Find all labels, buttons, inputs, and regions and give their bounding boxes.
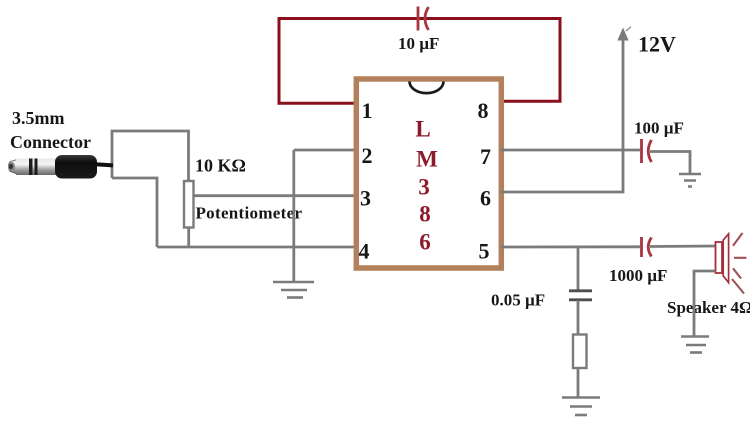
3.5mm connector J1	[8, 155, 97, 179]
svg-text:12V: 12V	[638, 32, 676, 57]
potentiometer R1	[184, 181, 194, 228]
svg-text:7: 7	[480, 144, 491, 169]
IC label LM386 vertical	[415, 117, 438, 255]
wire: pin 6 to 12V rail	[501, 38, 623, 192]
svg-text:100 µF: 100 µF	[634, 119, 684, 138]
svg-text:10 KΩ: 10 KΩ	[195, 156, 246, 176]
svg-text:L: L	[415, 117, 430, 142]
wire: bottom rail to pin 4	[157, 246, 356, 249]
ground G2	[679, 174, 701, 187]
svg-text:Speaker 4Ω: Speaker 4Ω	[667, 298, 750, 317]
wire: red feedback loop (pin1 - C1 - pin8)	[279, 19, 560, 104]
svg-text:10 µF: 10 µF	[398, 34, 439, 53]
svg-text:3.5mm: 3.5mm	[12, 108, 65, 128]
wire: input down-path to bottom rail	[112, 178, 157, 247]
svg-text:2: 2	[362, 143, 373, 168]
wire: jack cable	[95, 164, 113, 165]
svg-text:6: 6	[480, 186, 491, 211]
12V arrowhead tick	[626, 27, 631, 31]
speaker LS1	[716, 233, 747, 294]
ground G1	[273, 282, 314, 298]
svg-text:4: 4	[359, 239, 370, 264]
resistor R2	[573, 335, 587, 369]
capacitor C3 0.05uF	[569, 291, 592, 300]
wire: pot bottom lead	[187, 228, 190, 248]
wire: input loop from jack to pot top	[112, 131, 189, 181]
IC notch	[410, 82, 444, 94]
svg-text:M: M	[416, 147, 438, 172]
ground G4	[562, 398, 600, 416]
capacitor C5 1000uF	[642, 237, 652, 257]
svg-text:3: 3	[360, 186, 371, 211]
svg-text:8: 8	[478, 98, 489, 123]
svg-text:0.05 µF: 0.05 µF	[491, 291, 545, 310]
svg-text:Connector: Connector	[10, 132, 91, 152]
wire: speaker return to ground G3	[694, 271, 716, 336]
svg-text:5: 5	[479, 239, 490, 264]
ground G3	[681, 337, 709, 353]
svg-text:1000 µF: 1000 µF	[609, 266, 667, 285]
wire: pin 5 to C5 and speaker	[501, 245, 640, 248]
svg-text:1: 1	[362, 98, 373, 123]
wire: C3 to R2	[577, 300, 580, 334]
wire: 0.05uF branch down from pin5 rail	[577, 247, 580, 290]
wire: pin 2 to ground	[292, 150, 295, 281]
wire: pin 7 to C2	[501, 149, 640, 152]
svg-text:8: 8	[419, 202, 431, 227]
capacitor C2 100uF	[642, 139, 652, 163]
capacitor C1 10uF	[418, 7, 429, 31]
wire: pot wiper to pin 3	[194, 194, 357, 197]
svg-text:3: 3	[418, 175, 430, 200]
wire: C2 to ground G2	[650, 152, 690, 175]
svg-text:Potentiometer: Potentiometer	[196, 204, 303, 223]
IC U1 LM386 body	[356, 79, 501, 268]
svg-text:6: 6	[419, 230, 431, 255]
12V arrowhead	[617, 28, 628, 41]
wire: R2 to ground G4	[577, 368, 580, 397]
wire: pin 2	[294, 149, 356, 152]
